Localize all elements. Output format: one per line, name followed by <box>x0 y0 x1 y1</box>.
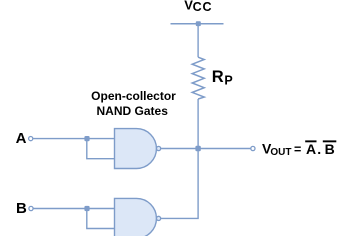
svg-text:B: B <box>325 141 335 157</box>
terminal VOUT <box>251 146 255 150</box>
svg-text:R: R <box>212 68 224 86</box>
svg-text:OUT: OUT <box>270 147 291 158</box>
label Rp <box>212 68 233 88</box>
wire A to junction <box>33 138 87 140</box>
node output junction <box>195 146 200 151</box>
label VCC <box>184 0 212 14</box>
overline of A <box>305 140 316 142</box>
wire resistor bottom to output node <box>197 99 199 149</box>
svg-text:Open-collector: Open-collector <box>91 89 176 103</box>
label Open-collector NAND Gates <box>91 89 176 118</box>
node A junction <box>84 136 89 141</box>
junction on VCC rail <box>196 21 201 26</box>
svg-text:.: . <box>317 141 321 157</box>
wire gate U1 output to VOUT terminal <box>161 148 251 150</box>
NAND gate U1 body <box>115 129 157 169</box>
wire output node down to gate U2 output corner <box>161 149 198 219</box>
node B junction <box>84 206 89 211</box>
svg-text:A: A <box>306 141 316 157</box>
svg-text:=: = <box>294 143 301 157</box>
wire junction to gate U2 top input <box>87 208 115 210</box>
wire junction down and right to gate U1 bottom input <box>87 139 115 159</box>
svg-text:P: P <box>224 74 232 88</box>
wire junction down and right to gate U2 bottom input <box>87 209 115 229</box>
resistor Rp <box>192 57 204 99</box>
terminal A <box>29 137 33 141</box>
wire VCC rail to resistor top <box>197 24 199 58</box>
svg-text:B: B <box>16 200 27 217</box>
overline of B <box>323 140 337 142</box>
wire junction to gate U1 top input <box>87 138 115 140</box>
svg-text:A: A <box>16 130 27 147</box>
VCC rail <box>171 23 224 25</box>
terminal B <box>29 206 33 210</box>
svg-text:NAND Gates: NAND Gates <box>97 104 169 118</box>
label VOUT = A . B <box>262 140 335 157</box>
svg-text:CC: CC <box>193 0 213 14</box>
gate U1 output bubble <box>157 146 161 150</box>
NAND gate U2 body <box>115 198 157 238</box>
gate U2 output bubble <box>157 216 161 220</box>
wire B to junction <box>33 208 87 210</box>
